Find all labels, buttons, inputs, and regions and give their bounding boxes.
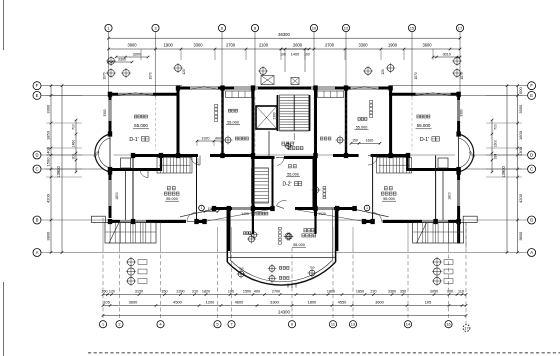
label vertical rt (370, 100, 373, 117)
bottom grid line 2 leader (119, 248, 121, 320)
grid continuation 3 (254, 97, 256, 150)
column 15 (313, 85, 317, 90)
svg-text:3300: 3300 (118, 57, 126, 61)
row D leader (42, 154, 528, 156)
svg-text:120: 120 (182, 69, 186, 75)
svg-text:160: 160 (101, 290, 107, 294)
grid line 1 leader (108, 32, 110, 97)
balcony railing line (227, 257, 335, 259)
extension line b (160, 222, 162, 248)
svg-text:500: 500 (518, 86, 523, 93)
grid bubble 17 (456, 24, 463, 31)
window right wall v1 (458, 100, 460, 121)
svg-text:2100: 2100 (259, 43, 269, 48)
grid line 8 leader (254, 32, 256, 89)
grid bubble 3 (152, 24, 159, 31)
label centerright room (355, 118, 369, 130)
row C leader (42, 168, 528, 170)
label vertical hall (279, 227, 282, 244)
row bubble A left (33, 249, 41, 257)
window top wall w1 (190, 87, 218, 89)
axis marker H (452, 68, 462, 78)
svg-text:F: F (530, 83, 533, 88)
svg-text:17: 17 (458, 25, 463, 30)
extension line f (332, 227, 334, 248)
svg-text:700: 700 (493, 124, 497, 130)
svg-text:3800: 3800 (518, 231, 523, 241)
svg-text:1400: 1400 (46, 146, 51, 156)
svg-text:3900: 3900 (127, 43, 137, 48)
svg-text:100: 100 (447, 290, 453, 294)
grid continuation 2 (221, 97, 223, 150)
svg-text:D-1': D-1' (129, 137, 138, 143)
svg-text:55.000: 55.000 (356, 126, 368, 130)
svg-text:110: 110 (458, 290, 464, 294)
core west wall (252, 88, 255, 216)
label elevator lobby (282, 142, 303, 150)
axis marker A (106, 56, 116, 66)
rotated dim left wall (115, 192, 119, 200)
svg-text:13900: 13900 (56, 166, 61, 178)
detail bubbles right (432, 257, 453, 286)
window bottom left2 (232, 207, 252, 209)
svg-text:1070: 1070 (414, 72, 418, 79)
bottom dimension row2 (102, 300, 468, 307)
row bubble B left (33, 216, 41, 224)
left porch stub (91, 216, 105, 222)
rotated top dim 4 (460, 72, 464, 79)
balcony post right (336, 209, 339, 252)
column 19 (388, 85, 392, 90)
column 17 (344, 85, 348, 90)
kitchen counter left (226, 91, 252, 98)
right bay window arc (459, 134, 476, 172)
window right unit north (416, 93, 451, 95)
svg-text:400: 400 (215, 136, 221, 140)
dim 1920 400 (196, 136, 224, 146)
rotated dim right wall (448, 192, 452, 200)
svg-text:36300: 36300 (278, 32, 290, 37)
window right wall v2 (458, 180, 460, 206)
svg-text:3010: 3010 (443, 52, 451, 56)
label balcony room (292, 229, 316, 248)
detail bubbles center (279, 267, 289, 280)
svg-text:700: 700 (72, 124, 76, 130)
svg-text:1: 1 (366, 206, 368, 210)
window left unit north (118, 93, 153, 95)
svg-text:1600: 1600 (493, 140, 497, 148)
bottom grid bubble 16 (445, 321, 452, 328)
column 9 (220, 153, 224, 158)
column 35 (202, 219, 206, 224)
svg-text:1070: 1070 (103, 72, 107, 79)
label left bottom room (164, 187, 179, 202)
svg-text:1: 1 (201, 206, 203, 210)
svg-text:D-1': D-1' (420, 137, 429, 143)
door left room (191, 156, 201, 166)
hall west wall (272, 157, 274, 210)
svg-text:310: 310 (192, 290, 198, 294)
top extension line 9 (403, 49, 405, 60)
window bottom left (120, 220, 146, 222)
column 27 (456, 131, 460, 136)
column 20 (388, 153, 392, 158)
fixture marker 6 (312, 186, 321, 195)
window left wall v1 (109, 100, 111, 121)
top extension line 8 (380, 49, 382, 60)
partition left2 (196, 156, 198, 222)
svg-text:1300: 1300 (518, 146, 523, 156)
svg-text:55.000: 55.000 (417, 123, 431, 128)
top extension line 1 (140, 49, 142, 60)
column 6 (176, 85, 180, 90)
svg-text:1800: 1800 (448, 192, 452, 200)
fixture marker 1 (224, 136, 249, 145)
porch grid 2 (417, 223, 459, 244)
svg-text:A: A (36, 250, 39, 255)
left unit bay opening mask (107, 134, 114, 172)
bottom wall right inner (295, 207, 355, 210)
svg-text:350: 350 (161, 290, 167, 294)
left porch (105, 223, 156, 244)
vent box with X (291, 78, 299, 85)
fixture marker 3 (284, 232, 293, 241)
service stair (252, 168, 269, 203)
row bubble A right (528, 249, 536, 257)
bottom grid line 17 leader (465, 222, 467, 324)
axis marker G (452, 56, 462, 66)
rotated top dim 1 (103, 72, 107, 79)
column 10 (251, 85, 255, 90)
right porch stub (463, 216, 477, 222)
overall top dimension 36300 (107, 32, 461, 39)
svg-text:300: 300 (72, 154, 76, 160)
casement marks w1 (190, 87, 218, 90)
row bubble D left (33, 151, 41, 159)
balcony marker left (237, 267, 246, 279)
door hall north (276, 158, 284, 166)
svg-text:150: 150 (352, 139, 358, 143)
bottom wall left span (108, 220, 205, 223)
svg-text:1500: 1500 (46, 157, 51, 167)
sheet edge line bottom-left (3, 282, 5, 356)
window bottom right (316, 207, 334, 209)
door right room (368, 156, 378, 166)
column 7 (176, 153, 180, 158)
grid continuation 5 (345, 97, 347, 150)
right sub dims (491, 119, 498, 174)
skylight box with X (261, 76, 274, 85)
svg-text:220: 220 (370, 290, 376, 294)
svg-text:1070: 1070 (149, 72, 153, 79)
svg-text:3300: 3300 (358, 43, 368, 48)
svg-text:105: 105 (425, 300, 432, 305)
bottom grid bubble 1 (99, 321, 106, 328)
label right room level (416, 123, 432, 129)
core below-stair lines (252, 131, 270, 168)
elevator shaft (256, 106, 277, 129)
column 30 (335, 206, 339, 211)
fixture marker 8 (364, 205, 370, 211)
shaft box right (438, 158, 448, 168)
label left room title (134, 115, 147, 118)
label centerleft room (226, 109, 240, 124)
shaft box left (121, 158, 131, 168)
extension line c (217, 227, 219, 248)
extension line h (448, 222, 450, 248)
dim 1020 below right (285, 212, 326, 241)
window bottom right2 (422, 220, 448, 222)
row C wall left (108, 168, 162, 171)
extension line j (465, 222, 467, 248)
svg-text:105: 105 (103, 300, 110, 305)
svg-text:E: E (530, 93, 533, 98)
casement marks left n (118, 93, 153, 96)
svg-text:1800: 1800 (327, 290, 335, 294)
svg-text:B: B (530, 218, 533, 223)
label vertical 1900 (196, 158, 200, 166)
top sub-dimension 3300 left (115, 52, 150, 58)
row E leader (42, 94, 528, 96)
top sub-dimension 3010 right (432, 52, 462, 58)
axis marker C (173, 63, 183, 73)
extension line d (231, 227, 233, 248)
closet line right (442, 171, 444, 221)
grid line 12 leader (345, 32, 347, 89)
bottom grid bubble 2 (116, 321, 123, 328)
core inner wall left (277, 95, 279, 131)
bottom grid bubble 14 (404, 321, 411, 328)
hall east wall (313, 157, 315, 210)
svg-text:E: E (36, 93, 39, 98)
bottom grid bubble 9 (288, 321, 295, 328)
balcony marker mid (268, 264, 277, 283)
right unit bay opening mask (455, 134, 462, 172)
door left unit entry (187, 213, 196, 222)
right unit outer east wall (457, 95, 460, 244)
svg-text:2700: 2700 (325, 43, 335, 48)
balcony post left (228, 209, 231, 252)
svg-text:2700: 2700 (272, 290, 280, 294)
svg-text:4200: 4200 (518, 193, 523, 203)
bottom grid line 9 leader (291, 248, 293, 320)
core north wall (177, 87, 393, 90)
svg-text:4500: 4500 (173, 300, 182, 305)
column 32 (370, 219, 374, 224)
grid line 10 leader (313, 32, 315, 89)
row bubble E left (33, 91, 41, 99)
bottom wall right span (364, 220, 461, 223)
core east wall (314, 88, 317, 216)
svg-text:100: 100 (228, 290, 234, 294)
column 22 (456, 92, 460, 97)
bottom grid bubble 11 (329, 321, 336, 328)
label vertical lt (215, 104, 218, 121)
dim 1900 small (204, 207, 220, 213)
hall stub left (252, 209, 254, 235)
bottom grid bubble 13 (349, 321, 356, 328)
row bubble E right (528, 91, 536, 99)
rotated top dim 5 (182, 69, 186, 75)
axis marker F (386, 63, 396, 73)
svg-text:700: 700 (238, 267, 243, 271)
label left room type (129, 137, 149, 143)
sheet bottom dashed strip (88, 352, 560, 354)
svg-text:1200: 1200 (206, 300, 215, 305)
svg-text:3300: 3300 (103, 109, 107, 116)
left extension ticks (46, 95, 82, 177)
door left bottom (140, 170, 148, 178)
overall bottom dimension 24300 (102, 309, 468, 316)
svg-text:700: 700 (309, 266, 314, 270)
party wall grid3 left (177, 87, 180, 158)
top dimension row segments (107, 43, 461, 51)
svg-text:3300: 3300 (518, 104, 523, 114)
door gap core wall (275, 156, 285, 160)
svg-text:D: D (35, 153, 38, 158)
bottom grid line 5 leader (217, 248, 219, 320)
door gap mid wall left (198, 154, 210, 158)
svg-text:13900: 13900 (501, 166, 506, 178)
grid line 15 leader (411, 32, 413, 97)
door gap bottom left (186, 219, 196, 223)
top extension line 7 (344, 49, 346, 60)
sheet edge line top-left (3, 0, 5, 50)
label vertical right (323, 186, 326, 198)
closet line left (125, 171, 127, 221)
left sub dims (72, 119, 78, 174)
svg-text:3300: 3300 (133, 52, 141, 56)
svg-text:3150: 3150 (135, 290, 143, 294)
column 37 (212, 206, 216, 211)
balcony slope line right (295, 209, 389, 222)
grid continuation 4 (313, 97, 315, 150)
core stair arrow (293, 133, 295, 145)
svg-text:F: F (36, 83, 39, 88)
grid bubble 8 (251, 24, 258, 31)
balcony arc inner (230, 260, 332, 282)
svg-text:1800: 1800 (308, 300, 317, 305)
bottom grid line 4 leader (160, 248, 162, 320)
extension line g (407, 222, 409, 248)
grid bubble 1 (105, 24, 112, 31)
window top wall w3 (311, 87, 335, 89)
right dimension column (516, 84, 523, 253)
window top wall w4 (351, 87, 379, 89)
column 38 (352, 206, 356, 211)
svg-text:A: A (530, 250, 533, 255)
top extension line 5 (280, 49, 282, 60)
casement marks right n (416, 93, 451, 96)
column 21 (406, 153, 410, 158)
dim 1400 below (241, 212, 268, 239)
row C wall right (407, 168, 461, 171)
column 34 (433, 219, 437, 224)
left unit north wall (108, 93, 180, 96)
balcony marker right (308, 266, 317, 278)
svg-text:15: 15 (410, 25, 415, 30)
svg-text:D: D (530, 153, 533, 158)
label vertical 2300 (273, 112, 277, 119)
balcony side inner left (229, 209, 231, 261)
label right room type (420, 137, 440, 143)
balcony drain ticks (288, 283, 296, 288)
svg-text:55.000: 55.000 (293, 243, 305, 247)
detail bubbles left (126, 257, 147, 286)
left overall dimension 13900 (56, 84, 63, 253)
axis marker E (363, 66, 373, 76)
balcony side inner right (332, 209, 334, 261)
svg-text:3300: 3300 (460, 109, 464, 116)
right overall dimension 13900 (501, 84, 508, 253)
svg-text:3300: 3300 (270, 300, 279, 305)
right unit staircase (377, 158, 412, 174)
svg-text:C: C (35, 167, 38, 172)
svg-text:3600: 3600 (129, 300, 138, 305)
label hall type (282, 182, 301, 188)
row F leader (42, 85, 528, 87)
left bay window arc (92, 134, 110, 172)
column 31 (194, 219, 198, 224)
bottom grid bubble 5 (214, 321, 221, 328)
column 36 (362, 219, 366, 224)
right unit north wall (389, 93, 461, 96)
interior wall grid6 (221, 88, 223, 155)
column 11 (251, 153, 255, 158)
porch grid 1 (109, 223, 151, 244)
core staircase (280, 95, 310, 131)
column 2 (108, 167, 112, 172)
interior wall grid12 (345, 88, 347, 155)
svg-text:55.000: 55.000 (227, 121, 239, 125)
grid bubble 6 (218, 24, 225, 31)
svg-text:1400: 1400 (291, 53, 299, 57)
partition left kitchen (132, 156, 134, 222)
top extension line 2 (180, 49, 182, 60)
bottom grid bubble 4 (157, 321, 164, 328)
party wall grid15 right (389, 87, 392, 158)
column 28 (456, 169, 460, 174)
row bubble C right (528, 165, 536, 173)
extension line a (119, 222, 121, 248)
axis marker I (121, 68, 131, 78)
svg-text:1460: 1460 (72, 140, 76, 148)
svg-text:3050: 3050 (430, 290, 438, 294)
balcony slope line left (180, 209, 270, 222)
bottom wall left inner (214, 207, 274, 210)
right porch (413, 223, 464, 244)
svg-text:4200: 4200 (46, 193, 51, 203)
top extension line 3 (214, 49, 216, 60)
column 25 (108, 131, 112, 136)
row C-D connector right (407, 154, 409, 171)
column 16 (313, 153, 317, 158)
svg-text:3600: 3600 (422, 43, 432, 48)
grid line 17 leader (459, 32, 461, 97)
svg-text:1800: 1800 (115, 192, 119, 200)
row bubble D right (528, 151, 536, 159)
svg-text:4600: 4600 (235, 300, 244, 305)
svg-text:1500: 1500 (243, 290, 251, 294)
left dimension column (46, 84, 53, 253)
fixture marker 4 (284, 142, 292, 150)
right extension ticks (486, 95, 522, 177)
svg-text:17: 17 (464, 326, 468, 330)
grid line 6 leader (221, 32, 223, 89)
rotated dim left wall2 (103, 109, 107, 116)
grid bubble 10 (310, 24, 317, 31)
svg-text:14: 14 (406, 322, 411, 327)
